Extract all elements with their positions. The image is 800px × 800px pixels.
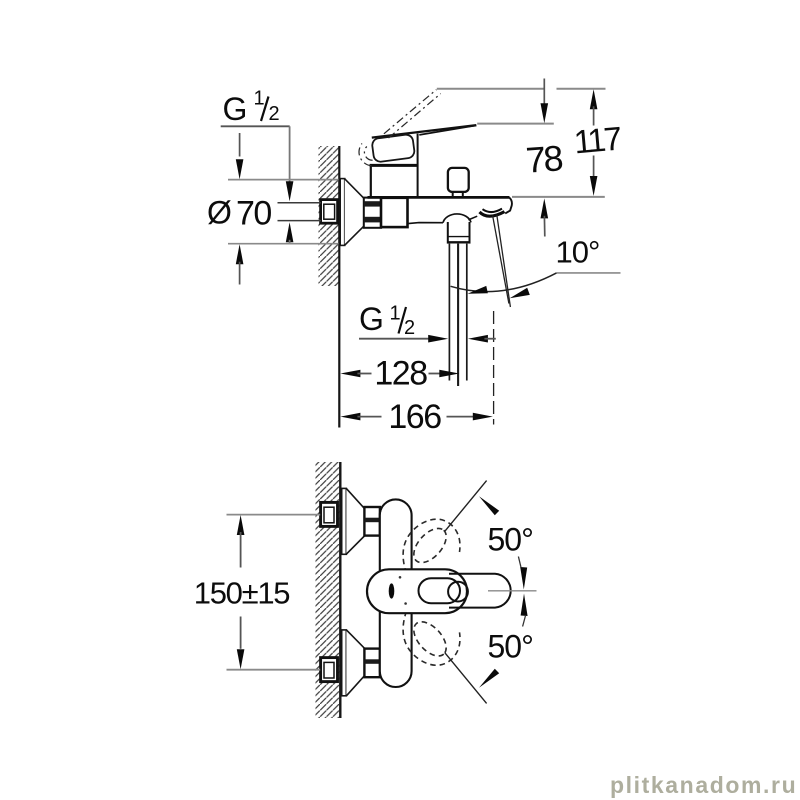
upper hex union <box>364 507 380 536</box>
svg-text:166: 166 <box>388 398 441 436</box>
svg-text:78: 78 <box>524 137 563 180</box>
50 deg upper diagonal <box>445 481 487 532</box>
lower escutcheon cone <box>346 630 364 696</box>
extension lines <box>228 179 339 181</box>
supply nut behind wall <box>321 200 338 224</box>
svg-text:1: 1 <box>254 88 265 110</box>
svg-text:2: 2 <box>269 103 280 125</box>
dimension 150±15 <box>194 515 320 670</box>
lever (edge view) <box>449 574 511 608</box>
wall surface line (bottom view) <box>339 462 341 718</box>
diverter knob <box>448 168 469 197</box>
svg-text:50°: 50° <box>488 522 533 558</box>
lower valve block <box>381 198 408 227</box>
escutcheon cone <box>345 179 364 245</box>
10 degree angle arc <box>451 273 557 292</box>
upper supply nut <box>321 502 338 526</box>
shower hose lines <box>449 244 466 386</box>
valve body capsule <box>380 499 412 687</box>
svg-text:plitkanadom.ru: plitkanadom.ru <box>610 772 797 798</box>
G1/2 hose dimension line <box>359 338 432 340</box>
50 deg lower diagonal <box>445 653 487 704</box>
label G 1/2 (top, supply thread) <box>223 88 280 128</box>
escutcheon plate (side) <box>340 179 345 246</box>
dashed rotated loop (lower) <box>403 611 460 665</box>
hose boss dome <box>443 214 471 223</box>
swing double arrow <box>520 567 527 616</box>
svg-text:G: G <box>359 301 384 337</box>
upper escutcheon cone <box>346 489 364 554</box>
lower supply nut <box>321 658 338 682</box>
dimension 128 <box>340 355 459 393</box>
svg-text:2: 2 <box>404 317 415 339</box>
svg-text:70: 70 <box>236 195 271 233</box>
hose connector <box>448 222 470 244</box>
svg-text:117: 117 <box>572 119 622 160</box>
lower hex union <box>364 649 380 678</box>
upper escutcheon plate <box>342 488 347 554</box>
svg-text:50°: 50° <box>488 629 533 665</box>
wall surface line (top view) <box>338 146 340 428</box>
svg-text:G: G <box>223 91 248 127</box>
svg-text:150±15: 150±15 <box>194 575 289 610</box>
spout right end <box>505 198 512 214</box>
dashed centre line of spout outlet <box>493 311 495 425</box>
pivot circle <box>448 582 468 602</box>
inner slot <box>419 578 461 603</box>
faucet body upper <box>370 134 418 198</box>
lower escutcheon plate <box>342 630 347 696</box>
raised lever (dash-dot) <box>359 90 441 166</box>
spout top line <box>368 196 510 199</box>
dimension Ø 70 <box>207 133 339 285</box>
centre line through handle <box>488 590 537 592</box>
G1/2 pipe OD arrows (outside, at x=289.6) <box>286 181 294 201</box>
extension line y=196.9 (spout plane, right of spout) <box>512 196 605 198</box>
svg-text:10°: 10° <box>556 235 600 270</box>
dimension 117 <box>572 89 622 196</box>
outside arrows at x=239.6 <box>239 133 241 157</box>
svg-text:128: 128 <box>374 355 427 393</box>
loop handle (front) <box>367 569 467 613</box>
G1/2 leader underline and drop <box>221 125 290 127</box>
temperature mark <box>389 583 395 598</box>
loop handle hole <box>371 134 415 163</box>
wall hatch (top view) <box>319 146 339 286</box>
extension line y=123.6 (78 top / lever tip) <box>477 123 554 125</box>
extension line y=88.7 (117 top) <box>437 88 545 90</box>
watermark <box>610 772 799 800</box>
S-union hex nut (side) <box>364 198 381 228</box>
spout underside <box>468 216 477 220</box>
dimension 78 <box>524 79 563 237</box>
supply pipe lines <box>278 202 322 204</box>
svg-text:1: 1 <box>390 303 401 325</box>
wall hatch (bottom view) <box>316 462 340 718</box>
aerator (mousseur) <box>480 209 505 217</box>
dimension 166 <box>340 398 492 436</box>
lever handle (solid position) <box>372 125 477 137</box>
small dots <box>399 576 402 579</box>
svg-text:Ø: Ø <box>207 195 232 231</box>
dashed rotated loop (upper) <box>403 519 460 573</box>
label G 1/2 (bottom, hose thread) <box>359 301 415 339</box>
water stream wedge (10 deg direction) <box>493 215 511 307</box>
